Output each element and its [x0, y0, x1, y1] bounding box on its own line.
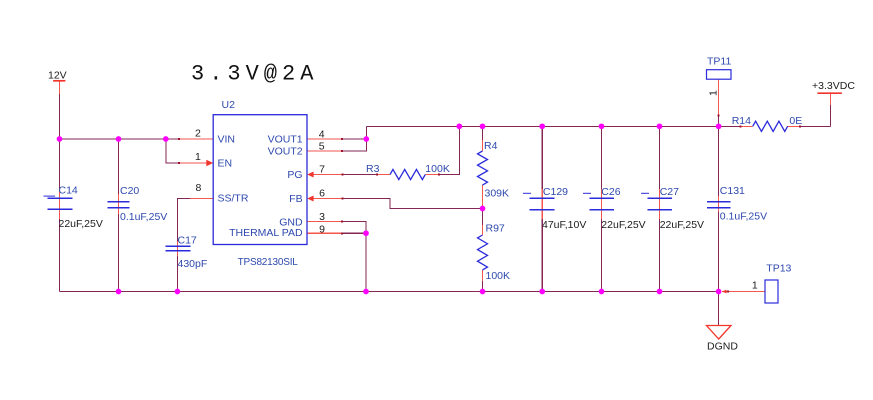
svg-text:THERMAL PAD: THERMAL PAD	[229, 227, 303, 239]
svg-text:100K: 100K	[425, 163, 450, 175]
svg-text:TP11: TP11	[707, 56, 731, 68]
svg-text:22uF,25V: 22uF,25V	[59, 218, 103, 230]
svg-text:1: 1	[707, 90, 719, 96]
svg-text:+3.3VDC: +3.3VDC	[812, 80, 855, 92]
svg-text:C131: C131	[720, 185, 745, 197]
svg-text:6: 6	[319, 188, 325, 200]
svg-text:309K: 309K	[485, 188, 510, 200]
svg-text:VOUT1: VOUT1	[268, 134, 303, 146]
svg-text:47uF,10V: 47uF,10V	[542, 219, 586, 231]
svg-text:R14: R14	[732, 115, 751, 127]
svg-text:0.1uF,25V: 0.1uF,25V	[120, 211, 167, 223]
svg-text:U2: U2	[222, 99, 236, 111]
svg-text:0E: 0E	[789, 115, 802, 127]
svg-text:C129: C129	[543, 186, 568, 198]
svg-text:DGND: DGND	[707, 340, 738, 352]
svg-text:C27: C27	[660, 186, 679, 198]
svg-text:3: 3	[319, 211, 325, 223]
svg-text:3.3V@2A: 3.3V@2A	[191, 62, 318, 87]
svg-text:SS/TR: SS/TR	[218, 193, 249, 205]
svg-text:R97: R97	[486, 223, 505, 235]
svg-text:PG: PG	[287, 169, 302, 181]
svg-text:C14: C14	[59, 185, 78, 197]
svg-text:1: 1	[195, 151, 201, 163]
svg-text:EN: EN	[218, 157, 233, 169]
svg-text:12V: 12V	[48, 70, 67, 82]
svg-text:9: 9	[319, 224, 325, 236]
svg-text:5: 5	[319, 141, 325, 153]
svg-text:100K: 100K	[486, 270, 511, 282]
svg-text:FB: FB	[289, 193, 302, 205]
svg-text:C26: C26	[601, 186, 620, 198]
svg-text:0.1uF,25V: 0.1uF,25V	[720, 211, 767, 223]
svg-text:TPS82130SIL: TPS82130SIL	[238, 257, 299, 268]
svg-text:1: 1	[752, 280, 758, 292]
svg-text:C20: C20	[120, 185, 139, 197]
svg-text:C17: C17	[178, 234, 197, 246]
svg-text:VIN: VIN	[218, 134, 236, 146]
svg-text:2: 2	[195, 128, 201, 140]
svg-text:430pF: 430pF	[178, 258, 208, 270]
svg-text:R4: R4	[484, 140, 498, 152]
svg-text:22uF,25V: 22uF,25V	[601, 219, 645, 231]
svg-text:8: 8	[196, 182, 202, 194]
svg-text:4: 4	[319, 129, 325, 141]
svg-text:TP13: TP13	[766, 263, 791, 275]
svg-text:VOUT2: VOUT2	[268, 146, 303, 158]
svg-text:R3: R3	[366, 163, 380, 175]
svg-text:22uF,25V: 22uF,25V	[660, 219, 704, 231]
svg-text:7: 7	[319, 164, 325, 176]
